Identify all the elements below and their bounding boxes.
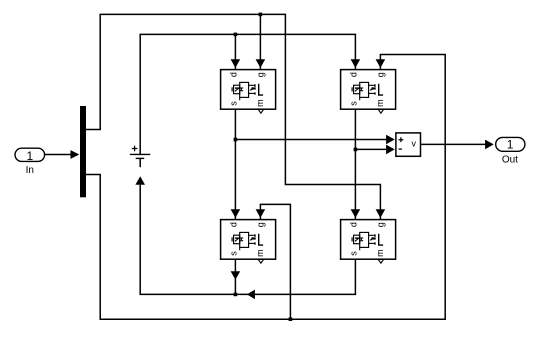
MOSFET block Q3 (bottom-left)	[221, 220, 276, 264]
junction battery return node	[234, 293, 238, 297]
wire node B to voltmeter minus	[355, 148, 388, 150]
wire gate1 net	[86, 14, 380, 219]
input port In1 oval	[15, 148, 45, 161]
wire gate1 branch to Q1 g	[259, 14, 261, 69]
arrowhead Q3 s down	[231, 271, 241, 280]
arrowhead into voltmeter minus	[386, 145, 395, 155]
svg-text:1: 1	[26, 149, 33, 163]
voltmeter plus sign	[399, 137, 404, 142]
wire In to Demux	[45, 154, 72, 156]
junction gate2 branch	[289, 317, 293, 321]
battery E1 positive plate	[130, 153, 150, 155]
battery E1 negative plate	[136, 157, 145, 159]
wire Q3 s to junction	[234, 260, 236, 295]
arrowhead into battery minus	[135, 176, 145, 185]
svg-text:1: 1	[507, 137, 514, 151]
wire voltmeter to Out	[421, 143, 488, 145]
arrowhead gate1 into Q4 g	[376, 209, 386, 218]
output port Out1 oval	[496, 137, 525, 151]
wire Q4 s to junction	[236, 260, 355, 295]
svg-text:In: In	[26, 165, 34, 176]
arrowhead rail into Q1 d	[231, 59, 241, 68]
wire gate2 net	[86, 55, 445, 320]
battery E1 plus sign	[132, 146, 138, 152]
arrowhead Q4 s left	[247, 290, 255, 300]
arrowhead gate2 into Q3 g	[256, 209, 266, 218]
junction gate1 to Q1 g	[259, 13, 263, 17]
arrowhead into Q4 d	[351, 209, 361, 218]
svg-text:Out: Out	[502, 155, 518, 166]
arrowhead rail into Q2 d	[351, 59, 361, 68]
MOSFET block Q1 (top-left)	[221, 70, 276, 114]
Demux bar	[80, 106, 86, 197]
MOSFET block Q2 (top-right)	[341, 70, 396, 114]
arrowhead into Out	[485, 140, 494, 150]
arrowhead into Demux	[71, 150, 80, 159]
voltmeter U1 box	[396, 133, 421, 156]
junction node B	[354, 148, 358, 152]
junction node A	[234, 138, 238, 142]
wire drain rail branch to Q1 d	[234, 34, 236, 69]
wire drain rail from battery plus	[140, 34, 355, 154]
MOSFET block Q4 (bottom-right)	[341, 220, 396, 264]
svg-text:v: v	[412, 138, 417, 148]
arrowhead gate1 into Q1 g	[256, 59, 266, 68]
wire gate2 branch to Q3 g	[260, 204, 290, 319]
battery E1 negative lead stub	[139, 158, 141, 167]
wire battery minus return	[140, 185, 235, 295]
wire Q1 s down to Q3 d	[234, 109, 236, 219]
arrowhead into Q3 d	[231, 209, 241, 218]
junction drain rail to Q1 d	[234, 33, 238, 37]
arrowhead into voltmeter plus	[386, 135, 395, 145]
wire Q2 s down to Q4 d	[354, 109, 356, 219]
voltmeter minus sign	[399, 148, 402, 150]
wire node A to voltmeter plus	[235, 139, 388, 141]
arrowhead gate2 into Q2 g	[376, 59, 386, 68]
